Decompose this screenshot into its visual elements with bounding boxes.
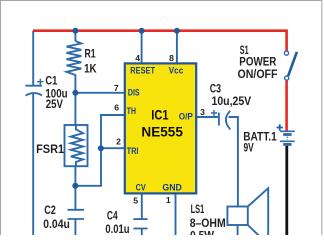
- svg-text:1: 1: [166, 195, 171, 205]
- svg-text:6: 6: [114, 102, 119, 112]
- svg-text:C3: C3: [210, 84, 221, 96]
- svg-text:TH: TH: [127, 106, 136, 117]
- svg-text:IC1: IC1: [151, 106, 168, 122]
- svg-text:7: 7: [114, 83, 119, 93]
- svg-text:R1: R1: [85, 49, 97, 61]
- svg-text:8: 8: [169, 53, 174, 63]
- svg-text:BATT.1: BATT.1: [243, 131, 277, 143]
- svg-text:RESET: RESET: [130, 66, 155, 77]
- svg-text:S1: S1: [240, 45, 249, 57]
- svg-text:5: 5: [133, 195, 138, 205]
- svg-text:FSR1: FSR1: [36, 144, 65, 156]
- svg-text:TRI: TRI: [127, 146, 139, 157]
- svg-text:10u,25V: 10u,25V: [212, 96, 252, 108]
- svg-text:ON/OFF: ON/OFF: [238, 69, 278, 81]
- svg-text:4: 4: [135, 53, 140, 63]
- svg-text:C4: C4: [107, 211, 118, 223]
- svg-text:GND: GND: [162, 183, 182, 194]
- svg-text:0.01u: 0.01u: [105, 224, 129, 235]
- svg-text:0.04u: 0.04u: [43, 219, 70, 231]
- svg-text:3: 3: [200, 107, 205, 117]
- svg-text:POWER: POWER: [239, 57, 277, 69]
- svg-text:8–OHM: 8–OHM: [190, 218, 226, 230]
- svg-text:CV: CV: [136, 183, 147, 194]
- svg-text:Vcc: Vcc: [169, 66, 184, 77]
- svg-text:9V: 9V: [244, 143, 254, 155]
- svg-text:NE555: NE555: [141, 123, 183, 139]
- svg-text:LS1: LS1: [191, 204, 205, 216]
- svg-text:2: 2: [116, 137, 121, 147]
- svg-text:C2: C2: [44, 205, 56, 217]
- svg-text:O/P: O/P: [179, 112, 194, 123]
- svg-text:C1: C1: [45, 76, 57, 88]
- svg-text:1K: 1K: [84, 63, 97, 75]
- svg-text:DIS: DIS: [128, 87, 140, 98]
- svg-text:25V: 25V: [46, 99, 63, 111]
- svg-text:0.5W: 0.5W: [190, 231, 214, 236]
